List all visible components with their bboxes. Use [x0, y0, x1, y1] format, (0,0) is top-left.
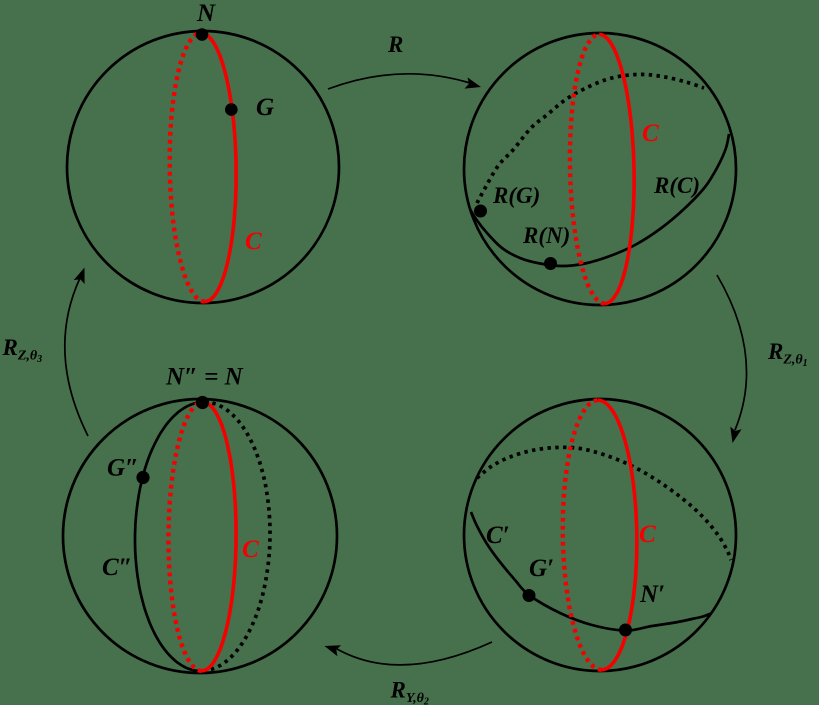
point G-prime dot: [523, 589, 536, 602]
meridian C-doubleprime solid front half (sphere 3): [135, 402, 205, 671]
point N-prime dot: [619, 624, 632, 637]
point G-doubleprime dot: [136, 471, 149, 484]
circle C dotted back half (sphere 4): [563, 400, 602, 670]
circle C dotted back half (sphere 1): [170, 33, 205, 302]
meridian C-doubleprime dotted back half (sphere 3): [200, 402, 270, 671]
sphere 4 outline: [464, 399, 736, 671]
circle C dotted back half (sphere 3): [169, 402, 204, 671]
svg-text:C: C: [245, 228, 262, 255]
arrow R_Y_theta2 (bottom): [337, 642, 492, 665]
svg-text:G′: G′: [529, 555, 554, 582]
circle C dotted back half (sphere 2): [570, 34, 605, 303]
svg-text:N″ = N: N″ = N: [165, 364, 244, 391]
svg-text:N′: N′: [639, 581, 665, 608]
great circle C-prime dotted back half: [477, 447, 731, 560]
great circle R(C) solid front half: [470, 134, 729, 266]
svg-text:C: C: [242, 536, 259, 563]
sphere 3 outline: [63, 399, 337, 673]
arrow R_Z_theta1 (right): [717, 275, 747, 430]
circle C solid front half (sphere 3): [202, 402, 237, 671]
circle C solid front half (sphere 1): [201, 33, 236, 302]
svg-text:R(G): R(G): [492, 183, 540, 208]
circle C solid front half (sphere 4): [598, 400, 637, 670]
svg-text:C: C: [639, 521, 656, 548]
svg-text:C: C: [642, 120, 659, 147]
point R(N) dot: [544, 257, 557, 270]
svg-text:N: N: [196, 0, 216, 27]
point R(G) dot: [474, 205, 487, 218]
svg-text:R: R: [387, 32, 403, 57]
sphere 1 outline: [67, 31, 339, 303]
svg-text:C′: C′: [486, 522, 510, 549]
svg-text:R(C): R(C): [653, 173, 700, 198]
svg-text:C″: C″: [102, 554, 132, 581]
arrow R (top): [328, 74, 470, 89]
point N-doubleprime dot: [196, 396, 209, 409]
point G dot: [225, 103, 238, 116]
circle C solid front half (sphere 2): [599, 34, 634, 303]
svg-text:R(N): R(N): [522, 223, 570, 248]
great circle C-prime solid front half: [471, 512, 711, 631]
point N dot: [196, 28, 209, 41]
arrow R_Z_theta3 (left): [65, 278, 88, 436]
sphere 2 outline: [464, 33, 736, 305]
great circle R(C) dotted back half: [477, 74, 704, 203]
svg-text:G: G: [256, 94, 274, 121]
svg-text:G″: G″: [107, 455, 139, 482]
